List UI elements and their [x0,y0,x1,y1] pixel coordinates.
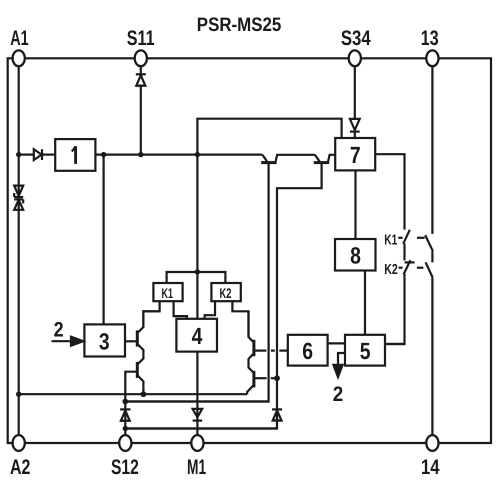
svg-text:S12: S12 [111,456,139,479]
svg-text:14: 14 [421,456,440,479]
svg-text:PSR-MS25: PSR-MS25 [197,14,282,36]
svg-text:3: 3 [99,328,110,354]
svg-text:2: 2 [54,318,64,341]
svg-text:A1: A1 [10,27,29,50]
svg-text:M1: M1 [187,456,206,479]
svg-text:4: 4 [192,323,203,349]
svg-text:7: 7 [350,142,361,168]
svg-text:K1: K1 [162,285,174,301]
svg-text:K2: K2 [220,285,232,301]
svg-text:6: 6 [302,338,313,364]
svg-text:5: 5 [360,338,371,364]
svg-text:13: 13 [421,27,439,50]
svg-text:A2: A2 [10,456,30,479]
svg-text:K1: K1 [384,233,397,249]
svg-text:S11: S11 [127,27,155,50]
svg-text:K2: K2 [384,262,398,278]
svg-text:2: 2 [333,383,344,406]
svg-text:S34: S34 [341,27,371,50]
svg-text:8: 8 [350,243,361,269]
